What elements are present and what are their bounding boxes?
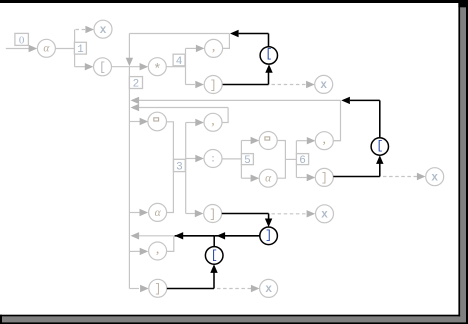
circle rbracket6 terminal xyxy=(315,168,333,186)
wire riser6 up xyxy=(295,141,297,154)
svg-text:]: ] xyxy=(210,79,217,92)
dashed wire to exit X4 xyxy=(217,288,251,290)
arrowhead into lbracket terminal xyxy=(85,63,94,70)
wire black segment loop2 xyxy=(350,99,380,101)
circle exit X1 xyxy=(94,20,112,38)
arrowhead into alpha5 xyxy=(251,175,260,182)
wire black riser down to B4 xyxy=(213,236,215,247)
wire rail upper segment xyxy=(128,34,130,59)
arrowhead black into comma-r corner xyxy=(175,232,184,239)
circle comma-r terminal xyxy=(149,242,167,260)
circle exit X4 xyxy=(260,279,278,297)
wire riser4 xyxy=(185,48,187,84)
arrowhead into rbracket6 xyxy=(307,174,316,181)
wire black B2 riser lower xyxy=(379,163,381,176)
svg-text:]: ] xyxy=(209,208,216,221)
wire black rbracket3 out xyxy=(222,213,269,215)
dashed wire to exit X2 xyxy=(272,84,307,86)
circle comma3 terminal xyxy=(204,113,222,131)
arrowhead into exit X4 xyxy=(251,285,260,292)
svg-text::: : xyxy=(210,154,216,165)
wire rail to equals xyxy=(129,121,139,123)
arrowhead black at junction riser xyxy=(217,232,226,239)
wire return line1 xyxy=(139,99,341,101)
circle exit X3 xyxy=(426,168,444,186)
arrowhead into rbracket-r xyxy=(140,285,149,292)
arrowhead into colon xyxy=(195,155,204,162)
window frame inner right border xyxy=(458,3,460,316)
wire riser3 xyxy=(185,123,187,214)
wire alpha to box1 xyxy=(55,48,74,50)
circle lbracket terminal xyxy=(94,58,112,76)
arrowhead into rbracket4 xyxy=(195,81,204,88)
arrowhead black loop2 into return line1 xyxy=(341,97,350,104)
wire riser6 down xyxy=(295,165,297,178)
box state-2 xyxy=(129,77,142,91)
circle exit X2 xyxy=(315,75,333,93)
arrowhead into comma6 xyxy=(307,137,316,144)
box state-4 xyxy=(173,54,185,68)
svg-text:6: 6 xyxy=(299,155,306,167)
wire riser3 to comma3 xyxy=(186,122,196,124)
box state-6 xyxy=(296,154,308,167)
svg-text:]: ] xyxy=(154,283,161,296)
svg-text:X: X xyxy=(321,210,328,222)
wire colon to box5 xyxy=(222,158,241,160)
wire black B1 riser lower xyxy=(268,72,270,84)
circle colon terminal xyxy=(204,150,222,168)
svg-text:5: 5 xyxy=(244,155,251,167)
arrowhead black loop1 into top line xyxy=(230,30,239,37)
wire bottom return gray segment xyxy=(139,235,174,237)
box state-1 xyxy=(74,42,86,56)
wire rail lower segment xyxy=(128,67,130,289)
wire riser6 to comma6 xyxy=(296,140,306,142)
arrowhead bottom return into rail xyxy=(131,232,140,239)
svg-text:,: , xyxy=(212,40,216,55)
svg-text:,: , xyxy=(323,132,327,147)
wire riser5 up xyxy=(240,141,242,154)
wire merge5 to box6 xyxy=(285,158,296,160)
dashed wire to exit X3 xyxy=(383,176,417,178)
window frame top-right black chunk xyxy=(458,0,468,7)
wire black down to B2 xyxy=(379,100,381,137)
arrowhead into equals xyxy=(140,118,149,125)
wire riser3 to rbracket3 xyxy=(186,213,195,215)
svg-text:0: 0 xyxy=(19,34,25,46)
wire lbracket to star junction xyxy=(112,66,140,68)
svg-text:4: 4 xyxy=(176,56,183,68)
arrowhead into alpha start xyxy=(29,45,38,52)
wire rail corner to rbracket-r xyxy=(129,288,139,290)
wire box1 riser down xyxy=(74,54,76,67)
wire return line2 corner to comma3 xyxy=(222,108,228,123)
circle rbracket4 terminal xyxy=(204,76,222,94)
svg-text:,: , xyxy=(211,114,215,129)
svg-text:X: X xyxy=(265,284,272,296)
circle equals terminal xyxy=(148,112,167,131)
circle B4 lbracket highlighted xyxy=(205,247,223,265)
arrowhead into comma3 xyxy=(195,119,204,126)
wire riser4 to rbracket4 xyxy=(186,84,195,86)
wire merge5 vertical xyxy=(277,141,285,179)
arrowhead return line1 into rail xyxy=(131,97,140,104)
arrowhead into exit X2 xyxy=(306,81,315,88)
dashed wire box1 to exit X1 xyxy=(76,29,87,31)
svg-text:]: ] xyxy=(321,172,328,185)
svg-text:α: α xyxy=(265,173,272,185)
arrowhead into exit X1 xyxy=(85,26,94,33)
wire black B3 to junction xyxy=(214,235,260,237)
svg-text:3: 3 xyxy=(176,161,183,173)
svg-text:α: α xyxy=(43,43,50,55)
window frame bottom gray band xyxy=(2,316,466,322)
window frame bottom outer edge xyxy=(0,322,468,324)
wire riser6 to rbracket6 xyxy=(296,177,306,179)
circle exit X5 xyxy=(316,205,334,223)
arrowhead into comma4 xyxy=(196,45,205,52)
circle rbracket3 terminal xyxy=(204,205,222,223)
wire top loop line xyxy=(129,33,229,35)
wire rail to comma-r xyxy=(129,250,139,252)
arrowhead black up into B1 xyxy=(265,64,272,73)
arrowhead into exit X3 xyxy=(417,173,426,180)
wire entry to alpha xyxy=(6,48,29,50)
wire black junction to corner xyxy=(175,235,215,237)
wire box1 to lbracket xyxy=(75,66,85,68)
svg-text:[: [ xyxy=(211,249,218,263)
arrowhead black down into B3 xyxy=(265,219,272,228)
arrowhead into comma-r xyxy=(140,248,149,255)
window frame left bottom sliver xyxy=(0,315,2,324)
circle comma4 terminal xyxy=(205,39,223,57)
circle star terminal xyxy=(148,58,166,78)
wire black rbracket-r out xyxy=(167,288,214,290)
arrowhead rail down into junction xyxy=(126,58,133,67)
svg-text:1: 1 xyxy=(77,44,84,56)
arrowhead black up into B4 xyxy=(210,264,217,273)
svg-text:*: * xyxy=(153,62,161,78)
circle B2 lbracket highlighted xyxy=(371,138,388,155)
wire black rbracket4 to B1 corner xyxy=(223,84,269,86)
circle alpha5 terminal xyxy=(259,169,277,187)
wire return line1 corner to comma6 xyxy=(333,100,340,140)
window frame top bar xyxy=(0,0,468,3)
arrowhead into star xyxy=(140,63,149,70)
circle alpha start terminal xyxy=(37,39,55,57)
wire riser5 to equals5 xyxy=(241,140,250,142)
svg-text:,: , xyxy=(156,242,160,257)
box rule-0 label xyxy=(15,33,29,46)
wire black top segment xyxy=(239,33,269,35)
arrowhead into equals5 xyxy=(251,137,260,144)
arrowhead return line2 into rail xyxy=(131,104,140,111)
wire black down toward B3 xyxy=(268,214,270,220)
arrowhead black up into B2 xyxy=(376,155,383,164)
circle B3 rbracket highlighted xyxy=(260,227,278,245)
wire riser5 to alpha5 xyxy=(241,177,250,179)
window frame right gray band xyxy=(460,7,466,322)
circle alpha3 terminal xyxy=(149,203,167,221)
wire star to riser4 xyxy=(166,66,185,68)
circle B1 lbracket highlighted xyxy=(260,47,277,64)
wire box1 riser up xyxy=(74,30,76,43)
circle comma6 terminal xyxy=(315,132,333,150)
wire comma-r loopback corner xyxy=(167,236,174,252)
arrowhead into alpha3 xyxy=(140,209,149,216)
wire rail to alpha3 xyxy=(129,212,139,214)
svg-text:]: ] xyxy=(265,229,272,243)
svg-text:X: X xyxy=(100,25,107,37)
wire riser5 down xyxy=(240,165,242,179)
svg-text:α: α xyxy=(155,207,162,219)
wire black down into B1 xyxy=(268,34,270,47)
circle rbracket-r terminal xyxy=(149,279,167,297)
wire comma6 out corner xyxy=(333,140,340,142)
svg-text:2: 2 xyxy=(133,78,140,90)
window frame inner bottom border xyxy=(0,315,460,317)
box state-5 xyxy=(241,154,253,167)
wire black riser from bottom row xyxy=(213,272,215,288)
box state-3 xyxy=(174,159,186,173)
circle equals5 terminal xyxy=(259,132,277,150)
wire riser4 to comma4 xyxy=(186,47,197,49)
wire black rbracket6 to B2 corner xyxy=(333,176,380,178)
wire return line2 xyxy=(139,107,228,109)
arrowhead into exit X5 xyxy=(307,210,316,217)
svg-text:[: [ xyxy=(265,47,272,61)
svg-text:X: X xyxy=(321,80,328,92)
wire comma4 loopback corner xyxy=(223,34,230,49)
dashed wire to exit X5 xyxy=(272,213,307,215)
svg-text:[: [ xyxy=(376,139,383,153)
wire equals-alpha vertical into box3 xyxy=(167,122,174,213)
arrowhead into rbracket3 xyxy=(195,210,204,217)
svg-text:[: [ xyxy=(99,62,106,75)
svg-text:X: X xyxy=(432,172,439,184)
window frame right outer edge xyxy=(466,0,468,324)
wire riser3 to colon xyxy=(186,158,196,160)
